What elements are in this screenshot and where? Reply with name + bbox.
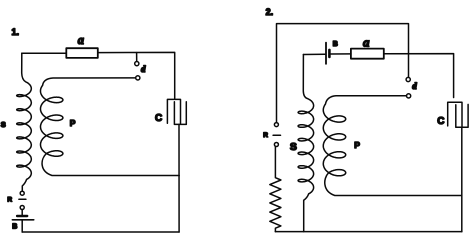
svg-text:C: C xyxy=(437,116,444,127)
svg-text:P: P xyxy=(354,140,360,150)
wire capacitor C2 bottom right vertical circuit 2 xyxy=(461,127,463,231)
contact ball R2 upper xyxy=(274,123,278,127)
svg-text:B: B xyxy=(12,224,17,231)
wire bottom circuit 2 xyxy=(275,231,461,233)
inductor P1 primary coil with top wire to gap and bottom wire xyxy=(41,78,180,176)
svg-text:2.: 2. xyxy=(266,7,274,17)
spark gap d2 lower ball xyxy=(407,94,411,98)
battery B2 short plate xyxy=(328,50,331,57)
spark gap d1 upper ball xyxy=(135,62,139,66)
capacitor C2 xyxy=(448,102,468,127)
wire battery to resistor circuit 2 xyxy=(331,53,351,55)
wire battery branch left circuit 2 xyxy=(303,53,325,55)
svg-text:a: a xyxy=(78,33,84,47)
inductor S2 secondary coil with leads xyxy=(298,55,314,232)
wire outer top circuit 2 xyxy=(277,24,409,123)
svg-text:P: P xyxy=(70,118,76,128)
contact ball R1 upper xyxy=(20,191,24,195)
contact R2 tick xyxy=(273,134,280,136)
battery B1 long plate xyxy=(12,219,33,221)
svg-text:S: S xyxy=(1,120,6,129)
svg-text:d: d xyxy=(141,64,146,74)
wire contact to battery circuit 1 xyxy=(21,210,23,216)
spark gap d2 upper ball xyxy=(406,77,410,81)
contact ball R1 lower xyxy=(20,206,24,210)
rheostat resistor circuit 2 with leads xyxy=(270,147,281,232)
inductor S1 secondary coil with left lead xyxy=(17,53,32,191)
spark gap d1 lower ball xyxy=(136,76,140,80)
contact ball R2 lower xyxy=(274,143,278,147)
resistor a1 xyxy=(66,48,98,58)
svg-text:S: S xyxy=(290,141,297,153)
contact R1 tick xyxy=(19,198,26,200)
wire resistor to capacitor circuit 2 xyxy=(384,54,454,98)
wire capacitor C1 bottom xyxy=(178,124,180,232)
inductor P2 primary coil with top wire to gap and bottom wire xyxy=(323,96,462,196)
svg-text:R: R xyxy=(7,196,12,203)
wire top right circuit 1 xyxy=(98,52,175,99)
battery B1 short plate xyxy=(17,215,27,217)
resistor a2 xyxy=(351,49,384,59)
svg-text:R: R xyxy=(263,132,268,139)
svg-text:1.: 1. xyxy=(12,27,20,37)
svg-text:B: B xyxy=(333,41,338,48)
battery B2 long plate xyxy=(325,43,327,64)
capacitor C1 xyxy=(167,99,186,124)
wire top left circuit 1 xyxy=(22,52,67,54)
svg-text:C: C xyxy=(155,113,162,124)
wire battery to bottom circuit 1 xyxy=(21,220,23,232)
wire bottom circuit 1 xyxy=(22,231,179,233)
wire stub to spark gap d1 xyxy=(136,53,138,62)
svg-text:d: d xyxy=(412,81,417,91)
svg-text:a: a xyxy=(363,34,370,49)
